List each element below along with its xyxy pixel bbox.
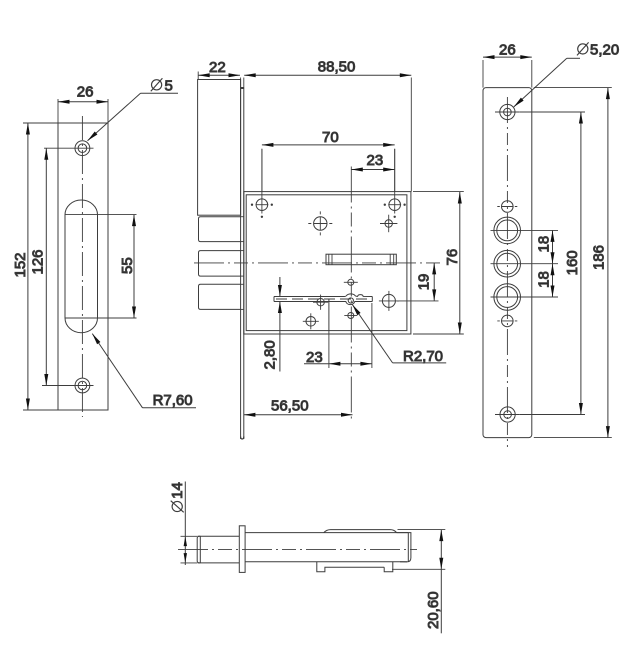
plate outline <box>483 88 532 438</box>
dimension 18 upper <box>551 230 555 263</box>
body top edge <box>245 532 408 534</box>
svg-text:70: 70 <box>322 129 339 146</box>
svg-text:5: 5 <box>165 78 173 95</box>
diameter symbol of ⌀5,20 <box>577 42 589 55</box>
body cover lid edge <box>324 530 397 533</box>
label R2,70 with leader <box>351 303 446 362</box>
svg-text:R7,60: R7,60 <box>153 392 193 409</box>
cylinder hole 2 <box>491 250 559 277</box>
dimension 88,50 <box>241 73 412 191</box>
label ⌀5,20 with leader <box>512 58 580 108</box>
svg-text:18: 18 <box>536 271 553 288</box>
bottom hole extension to 160 <box>520 414 585 416</box>
svg-text:76: 76 <box>444 249 461 266</box>
pin below keyhole <box>344 313 357 319</box>
bolt stump right <box>379 291 399 311</box>
flange <box>239 526 245 573</box>
bolt cylinder left cap <box>197 536 200 563</box>
diameter symbol of ⌀5 <box>151 78 163 91</box>
deadbolt 3 <box>199 284 241 309</box>
oval latch slot <box>65 200 98 333</box>
cylinder hole 3 <box>491 284 559 311</box>
label ⌀5 with leader <box>86 93 178 142</box>
svg-text:2,80: 2,80 <box>261 340 278 369</box>
dimension 18 lower <box>551 264 555 297</box>
dimension 70 <box>262 143 395 192</box>
bottom tab 2 <box>384 562 393 572</box>
dimension 23 (top) <box>351 168 394 172</box>
stop post <box>328 299 330 331</box>
top screw hole <box>495 104 520 119</box>
svg-text:23: 23 <box>306 349 323 366</box>
guide slot <box>326 254 396 265</box>
dimension ⌀14 <box>181 482 198 566</box>
svg-text:14: 14 <box>169 482 186 499</box>
dimension 186 <box>534 88 612 438</box>
key slide bar top line with cam bumps <box>274 294 372 297</box>
deadbolt 2 <box>199 251 241 277</box>
svg-text:20,60: 20,60 <box>425 591 442 629</box>
dimension 19 <box>397 263 439 301</box>
cylinder hole 1 <box>491 217 559 244</box>
svg-text:88,50: 88,50 <box>318 59 356 76</box>
bolt cylinder top line <box>198 535 240 537</box>
screw post top-left <box>251 149 272 218</box>
small pin hole lower <box>497 315 517 327</box>
armored block <box>198 80 241 216</box>
svg-text:126: 126 <box>30 249 47 274</box>
faceplate bottom cap <box>241 437 244 440</box>
body right end inner <box>407 533 409 562</box>
faceplate edge-on right line <box>243 88 245 440</box>
top hole extension to 160 <box>520 111 585 113</box>
guide pin above keyhole <box>344 279 358 285</box>
svg-text:152: 152 <box>12 252 29 277</box>
dimension 26 (right view) <box>483 55 532 88</box>
slot top arc-center extension line <box>65 214 137 216</box>
dimension 160 <box>579 112 583 415</box>
top screw hole <box>75 141 90 156</box>
case horizontal centerline <box>194 262 443 264</box>
body centerline <box>178 549 417 551</box>
dimension 26 (left view) <box>58 99 108 123</box>
svg-text:55: 55 <box>119 257 136 274</box>
body bottom edge <box>245 561 407 563</box>
dimension 20,60 <box>392 530 445 634</box>
faceplate edge-on left line <box>240 88 242 440</box>
bottom hole horizontal centerline <box>42 385 94 387</box>
slide bar mid dashes <box>276 298 372 300</box>
lock case outer outline <box>244 192 411 334</box>
svg-text:23: 23 <box>367 152 384 169</box>
faceplate outline <box>58 123 108 410</box>
svg-text:18: 18 <box>536 236 553 253</box>
lock case inner outline <box>246 195 407 331</box>
follower pin <box>380 215 397 233</box>
slot bottom arc-center extension line <box>65 317 137 319</box>
keyhole round hole <box>348 298 353 303</box>
faceplate top cap <box>241 87 244 89</box>
svg-text:56,50: 56,50 <box>271 398 309 415</box>
dimension 2,80 <box>278 277 282 372</box>
slide bar left end <box>273 297 275 302</box>
top hole horizontal centerline <box>44 147 94 149</box>
spindle hub <box>308 211 332 235</box>
bottom screw hole <box>495 407 520 422</box>
small pin hole upper <box>497 201 517 213</box>
label R7,60 with leader <box>91 332 196 407</box>
bolt pass-through ticks on faceplate <box>241 217 244 310</box>
svg-text:26: 26 <box>499 42 516 59</box>
body right end outer <box>397 533 411 562</box>
rivet bottom-left <box>303 313 319 329</box>
rivet left of keyhole <box>313 295 328 310</box>
dimension 152 <box>23 123 58 410</box>
bolt cylinder bottom line <box>198 562 240 564</box>
dimension 76 <box>413 192 464 334</box>
dimension 56,50 <box>244 413 353 417</box>
svg-text:186: 186 <box>590 245 607 270</box>
keyhole vertical axis <box>350 167 352 421</box>
vertical centerline <box>81 116 83 417</box>
svg-text:160: 160 <box>564 250 581 275</box>
dimension 55 <box>132 215 136 318</box>
key slide bar bottom line with notch <box>274 302 372 305</box>
plate vertical centerline <box>506 97 508 447</box>
screw post top-right <box>384 149 405 218</box>
dimension 126 <box>44 148 48 385</box>
bottom screw hole <box>75 378 90 393</box>
bottom tab 1 and lower rib line <box>317 562 384 572</box>
svg-text:R2,70: R2,70 <box>403 348 443 365</box>
deadbolt 1 <box>199 217 241 242</box>
svg-text:19: 19 <box>416 274 433 291</box>
svg-text:26: 26 <box>77 84 94 101</box>
dimension 23 (bottom) <box>304 303 372 368</box>
svg-text:22: 22 <box>209 59 226 76</box>
dimension 22 <box>198 72 240 80</box>
svg-text:5,20: 5,20 <box>590 42 619 59</box>
slide bar right end <box>371 297 373 302</box>
